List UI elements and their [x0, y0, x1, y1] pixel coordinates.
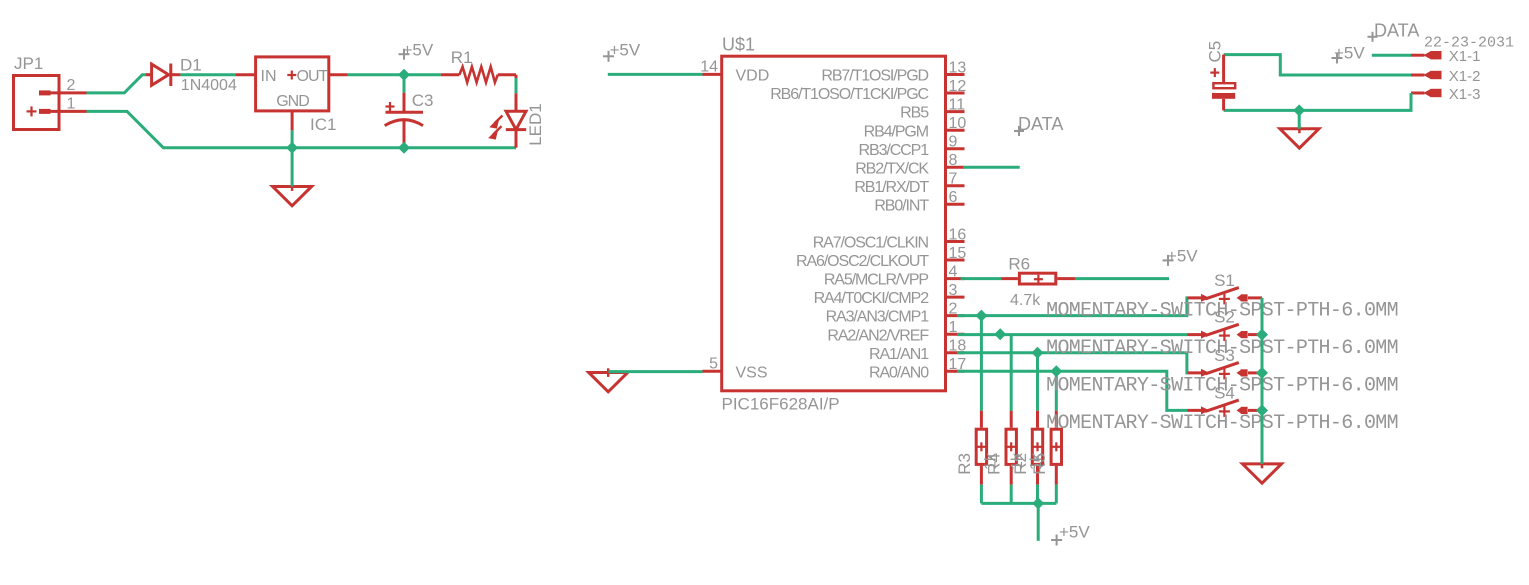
junction on pin17 net [1050, 365, 1062, 377]
pin 2 stub [946, 314, 965, 317]
wire D1 to IC1 [180, 73, 235, 76]
wire +5V collector rail [981, 502, 1056, 505]
svg-text:RB7/T1OSI/PGD: RB7/T1OSI/PGD [821, 68, 928, 85]
label DATA top right [1368, 20, 1420, 42]
pin number 16 [949, 226, 967, 243]
svg-text:+5V: +5V [1059, 523, 1090, 542]
ground at VSS [589, 368, 628, 392]
wire pin 18 to S3 [957, 353, 1188, 373]
label R4 [983, 452, 1004, 475]
svg-text:RA0/AN0: RA0/AN0 [869, 364, 929, 381]
pin number 11 [949, 96, 966, 113]
svg-text:2: 2 [949, 300, 958, 317]
svg-text:VDD: VDD [736, 68, 770, 85]
svg-text:IN: IN [261, 68, 277, 85]
svg-text:1: 1 [67, 96, 76, 113]
ground wire at VSS [609, 370, 703, 373]
pin number 15 [949, 245, 967, 262]
pin 15 stub [946, 259, 965, 262]
ground right section [1280, 125, 1319, 149]
supply +5V at VDD [603, 40, 641, 62]
wire JP1 pin2 to D1 [87, 75, 148, 93]
svg-text:1: 1 [949, 319, 958, 336]
pin 7 stub [946, 184, 965, 187]
svg-text:GND: GND [276, 93, 309, 110]
wire pin4 to R6 [961, 277, 1002, 280]
supply +5V right of R6 [1163, 247, 1199, 266]
capacitor C3 [385, 75, 423, 148]
svg-text:1k: 1k [983, 452, 1000, 470]
wire +5V to VDD pin 14 [608, 73, 703, 76]
switch S4 [1188, 400, 1263, 417]
supply +5V above C3 [399, 41, 434, 60]
pin 13 stub [946, 73, 965, 76]
pin number 2 of JP1 [67, 77, 76, 94]
svg-text:IC1: IC1 [310, 115, 336, 134]
svg-text:4.7k: 4.7k [1010, 292, 1041, 309]
pin 18 stub [946, 351, 965, 354]
pin 9 stub [946, 147, 965, 150]
pin 3 stub [946, 296, 965, 299]
pin name RB1/RX/DT [854, 179, 929, 196]
svg-text:1N4004: 1N4004 [181, 77, 237, 94]
pin 12 stub [946, 92, 965, 95]
junction node +5V at C3 [398, 69, 410, 81]
svg-text:U$1: U$1 [722, 35, 755, 55]
label IC1 [310, 115, 336, 134]
svg-text:C5: C5 [1206, 41, 1225, 63]
supply +5V at X1-1 [1332, 44, 1366, 64]
svg-text:RA5/MCLR/VPP: RA5/MCLR/VPP [824, 272, 929, 289]
value 22-23-2031 [1424, 35, 1514, 52]
svg-text:MOMENTARY-SWITCH-SPST-PTH-6.0M: MOMENTARY-SWITCH-SPST-PTH-6.0MM [1046, 412, 1398, 435]
pin 16 stub [946, 240, 965, 243]
label X1-2 [1449, 68, 1481, 85]
diode D1 [146, 64, 180, 87]
svg-text:X1-2: X1-2 [1449, 68, 1481, 85]
junction on pin1 net [994, 328, 1006, 340]
label R2 [1009, 452, 1030, 475]
value 4.7k [1010, 292, 1041, 309]
wire pin 17 to S4 [957, 371, 1188, 410]
svg-text:15: 15 [949, 245, 967, 262]
pin name VSS [736, 364, 768, 381]
svg-text:X1-1: X1-1 [1449, 48, 1481, 65]
label X1-1 [1449, 48, 1481, 65]
resistor R4 [1006, 411, 1016, 485]
svg-text:DATA: DATA [1018, 114, 1063, 134]
pin 6 stub [946, 203, 965, 206]
resistor R5 [1051, 411, 1061, 485]
pin number 17 [949, 356, 967, 373]
svg-text:R6: R6 [1008, 254, 1030, 273]
junction bus S3 [1256, 367, 1268, 379]
label X1-3 [1449, 86, 1481, 103]
svg-text:8: 8 [949, 152, 958, 169]
pin name RA2/AN2/VREF [827, 327, 929, 344]
wire to +5V bottom [1037, 503, 1040, 540]
svg-text:16: 16 [949, 226, 967, 243]
svg-text:PIC16F628AI/P: PIC16F628AI/P [722, 395, 840, 414]
connector pin X1-1 [1411, 51, 1442, 59]
switch S1 [1188, 288, 1263, 305]
junction on pin2 net [975, 310, 987, 322]
junction at GND rail below IC1 [286, 142, 298, 154]
label S4 [1214, 383, 1235, 402]
svg-text:+5V: +5V [1167, 247, 1198, 266]
label R1 [451, 48, 473, 67]
pin number 5 [709, 356, 718, 373]
svg-text:1k: 1k [1028, 452, 1045, 470]
pin name RB7/T1OSI/PGD [821, 68, 928, 85]
svg-text:9: 9 [949, 134, 958, 151]
svg-text:RB2/TX/CK: RB2/TX/CK [855, 160, 929, 177]
pin 1 stub [946, 333, 965, 336]
svg-text:RB0/INT: RB0/INT [874, 197, 929, 214]
svg-text:RB3/CCP1: RB3/CCP1 [859, 142, 930, 159]
svg-text:RA1/AN1: RA1/AN1 [869, 346, 929, 363]
svg-text:RA6/OSC2/CLKOUT: RA6/OSC2/CLKOUT [796, 253, 929, 270]
svg-text:RA3/AN3/CMP1: RA3/AN3/CMP1 [826, 309, 930, 326]
svg-text:RB6/T1OSO/T1CKI/PGC: RB6/T1OSO/T1CKI/PGC [770, 86, 928, 103]
wire +5V to X1-1 [1372, 54, 1411, 57]
label LED1 [526, 103, 545, 146]
pin 8 stub [946, 166, 965, 169]
svg-text:4: 4 [949, 263, 958, 280]
svg-text:DATA: DATA [1374, 20, 1419, 40]
wire branch to R4 [1010, 334, 1013, 411]
wire to ground symbol [291, 148, 294, 187]
wire IC1 OUT to node +5V [348, 73, 441, 76]
junction on ground rail right [1293, 104, 1305, 116]
value PIC16F628AI/P [722, 395, 840, 414]
pin name VDD [736, 68, 770, 85]
ground below switches [1243, 460, 1282, 484]
svg-text:11: 11 [949, 96, 966, 113]
svg-text:R3: R3 [955, 453, 974, 475]
label DATA at pin 8 [1014, 114, 1063, 136]
pin name RB3/CCP1 [859, 142, 930, 159]
svg-text:+5V: +5V [1334, 44, 1365, 63]
wire R4 to +5V rail [1010, 485, 1013, 504]
svg-text:R1: R1 [451, 48, 473, 67]
pin number 13 [949, 59, 967, 76]
resistor R1 [441, 67, 516, 83]
junction bus S2 [1256, 329, 1268, 341]
wire junction to ground [1298, 110, 1301, 128]
microcontroller U$1 [722, 56, 946, 391]
svg-text:RB4/PGM: RB4/PGM [864, 123, 929, 140]
svg-text:RA2/AN2/VREF: RA2/AN2/VREF [827, 327, 929, 344]
wire R3 to +5V rail [980, 485, 983, 504]
pin name RA1/AN1 [869, 346, 929, 363]
svg-text:D1: D1 [180, 55, 202, 74]
value MOMENTARY-SWITCH S1 [1046, 299, 1398, 322]
value MOMENTARY-SWITCH S3 [1046, 375, 1398, 398]
wire pin 1 to S2 [957, 333, 1188, 336]
pin 4 stub [946, 277, 965, 280]
pin name RA4/T0CKI/CMP2 [814, 290, 930, 307]
svg-text:+5V: +5V [610, 40, 641, 59]
label U$1 [722, 35, 755, 55]
pin name RB0/INT [874, 197, 929, 214]
junction bus S4 [1256, 404, 1268, 416]
svg-text:MOMENTARY-SWITCH-SPST-PTH-6.0M: MOMENTARY-SWITCH-SPST-PTH-6.0MM [1046, 375, 1398, 398]
pin 5 VSS [703, 370, 722, 373]
wire branch to R5 [1055, 371, 1058, 410]
pin 11 stub [946, 110, 965, 113]
resistor R3 [976, 411, 986, 485]
pin name RB5 [900, 105, 929, 122]
svg-text:10: 10 [949, 115, 967, 132]
wire C5 top to X1-2 [1224, 55, 1411, 75]
junction at GND rail below C3 [398, 142, 410, 154]
pin name RB6/T1OSO/T1CKI/PGC [770, 86, 928, 103]
svg-text:RB1/RX/DT: RB1/RX/DT [854, 179, 929, 196]
svg-text:1k: 1k [1009, 452, 1026, 470]
svg-text:JP1: JP1 [14, 54, 43, 73]
pin number 6 [949, 189, 958, 206]
value MOMENTARY-SWITCH S2 [1046, 337, 1398, 360]
label JP1 [14, 54, 43, 73]
resistor R6 [1002, 273, 1076, 284]
pin name RA7/OSC1/CLKIN [813, 235, 929, 252]
svg-text:2: 2 [67, 77, 76, 94]
ground below IC1 [273, 182, 312, 206]
wire R5 to +5V rail [1055, 485, 1058, 504]
svg-text:MOMENTARY-SWITCH-SPST-PTH-6.0M: MOMENTARY-SWITCH-SPST-PTH-6.0MM [1046, 337, 1398, 360]
label S2 [1214, 308, 1235, 327]
supply +5V bottom [1051, 523, 1090, 546]
svg-text:C3: C3 [412, 91, 434, 110]
pin name RB4/PGM [864, 123, 929, 140]
wire branch to R3 [980, 316, 983, 411]
label R3 [955, 453, 974, 475]
pin number 18 [949, 338, 967, 355]
svg-text:6: 6 [949, 189, 958, 206]
pin name RA0/AN0 [869, 364, 929, 381]
connector JP1 [14, 76, 87, 130]
pin number 10 [949, 115, 967, 132]
wire R2 to +5V rail [1036, 485, 1039, 504]
wire pin 2 to S1 [957, 298, 1188, 316]
svg-text:VSS: VSS [736, 364, 768, 381]
junction on pin18 net [1032, 347, 1044, 359]
svg-text:3: 3 [949, 282, 958, 299]
wire X1-3 to ground rail [1224, 93, 1411, 110]
svg-text:12: 12 [949, 78, 967, 95]
label R5 [1028, 452, 1049, 475]
LED LED1 [490, 93, 527, 147]
value 1N4004 [181, 77, 237, 94]
label S3 [1214, 346, 1235, 365]
pin name RA3/AN3/CMP1 [826, 309, 930, 326]
resistor R2 [1032, 411, 1042, 485]
pin number 1 of JP1 [67, 96, 76, 113]
label C3 [412, 91, 434, 110]
pin 14 VDD [703, 73, 722, 76]
wire R6 to +5V [1075, 277, 1169, 280]
wire IC1 GND [291, 130, 294, 147]
pin number 1 [949, 319, 958, 336]
label R6 [1008, 254, 1030, 273]
svg-text:X1-3: X1-3 [1449, 86, 1481, 103]
capacitor C5 [1210, 55, 1235, 111]
pin name RA5/MCLR/VPP [824, 272, 929, 289]
pin number 7 [949, 171, 958, 188]
svg-text:14: 14 [700, 59, 718, 76]
pin number 2 [949, 300, 958, 317]
pin name RA6/OSC2/CLKOUT [796, 253, 929, 270]
svg-text:+5V: +5V [403, 41, 434, 60]
pin number 14 [700, 59, 718, 76]
wire branch to R2 [1036, 353, 1039, 411]
pin number 12 [949, 78, 967, 95]
switch common bus wire [1261, 298, 1264, 464]
pin name RB2/TX/CK [855, 160, 929, 177]
svg-text:OUT: OUT [297, 68, 329, 85]
label C5 [1206, 41, 1225, 63]
junction on +5V rail [1032, 497, 1044, 509]
connector pin X1-2 [1411, 71, 1442, 79]
svg-text:13: 13 [949, 59, 967, 76]
regulator IC1 [235, 57, 347, 130]
switch S2 [1188, 324, 1263, 341]
value MOMENTARY-SWITCH S4 [1046, 412, 1398, 435]
label S1 [1214, 271, 1235, 290]
pin number 8 [949, 152, 958, 169]
wire JP1 pin1 to GND rail [87, 111, 517, 147]
pin number 3 [949, 282, 958, 299]
svg-text:RA4/T0CKI/CMP2: RA4/T0CKI/CMP2 [814, 290, 930, 307]
svg-text:RB5: RB5 [900, 105, 929, 122]
pin 17 stub [946, 370, 965, 373]
svg-text:RA7/OSC1/CLKIN: RA7/OSC1/CLKIN [813, 235, 929, 252]
label D1 [180, 55, 202, 74]
pin 10 stub [946, 129, 965, 132]
svg-text:MOMENTARY-SWITCH-SPST-PTH-6.0M: MOMENTARY-SWITCH-SPST-PTH-6.0MM [1046, 299, 1398, 322]
svg-text:LED1: LED1 [526, 103, 545, 146]
pin number 4 [949, 263, 958, 280]
switch S3 [1188, 363, 1263, 380]
wire R1 to LED1 [515, 75, 518, 94]
svg-text:S1: S1 [1214, 271, 1235, 290]
wire DATA from pin 8 [963, 166, 1020, 169]
svg-text:7: 7 [949, 171, 958, 188]
pin number 9 [949, 134, 958, 151]
svg-text:5: 5 [709, 356, 718, 373]
connector pin X1-3 [1411, 89, 1442, 97]
